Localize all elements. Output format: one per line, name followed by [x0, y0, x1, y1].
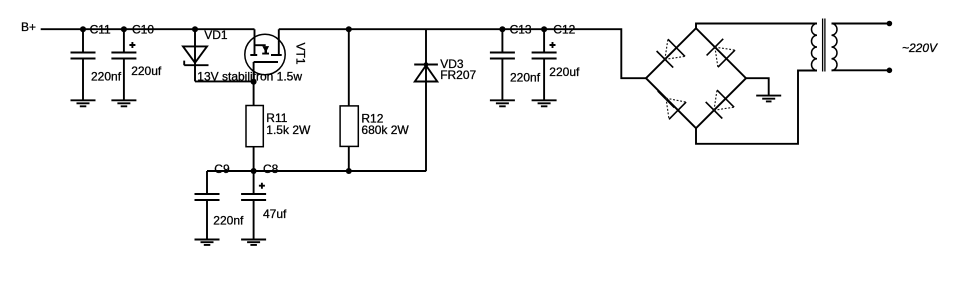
svg-text:220nf: 220nf [213, 213, 244, 227]
svg-text:B+: B+ [21, 20, 36, 34]
svg-text:47uf: 47uf [263, 207, 287, 221]
svg-text:220nf: 220nf [510, 71, 541, 85]
svg-text:C13: C13 [510, 23, 532, 37]
svg-text:VT1: VT1 [294, 42, 308, 64]
svg-text:~220V: ~220V [902, 41, 938, 55]
svg-text:C11: C11 [90, 23, 111, 37]
svg-text:680k 2W: 680k 2W [361, 123, 409, 137]
svg-text:VD1: VD1 [204, 28, 228, 42]
svg-text:13V stabilitron 1.5w: 13V stabilitron 1.5w [197, 70, 302, 84]
svg-text:1.5k 2W: 1.5k 2W [266, 123, 311, 137]
svg-text:220nf: 220nf [91, 70, 122, 84]
svg-text:FR207: FR207 [440, 68, 476, 82]
svg-text:220uf: 220uf [549, 65, 580, 79]
svg-text:C10: C10 [132, 23, 154, 37]
svg-text:C9: C9 [214, 162, 230, 176]
svg-text:C12: C12 [553, 23, 575, 37]
svg-text:220uf: 220uf [131, 64, 162, 78]
svg-text:C8: C8 [263, 162, 279, 176]
